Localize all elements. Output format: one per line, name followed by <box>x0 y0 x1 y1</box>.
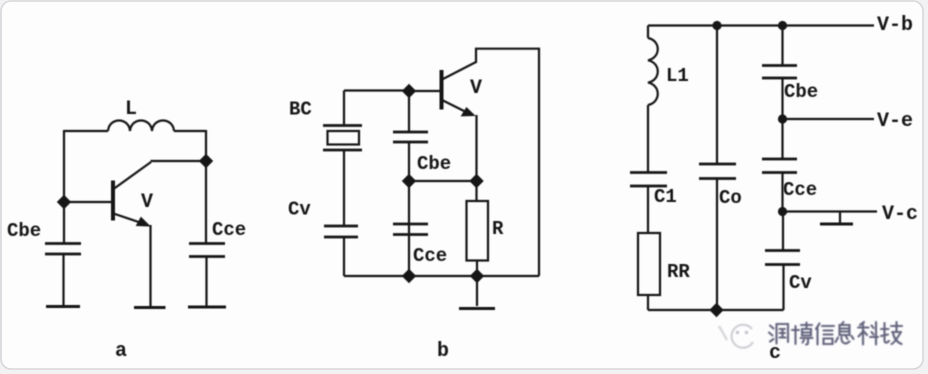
wire: left vertical lower (b) <box>343 237 345 276</box>
wire: middle vertical lower (c) <box>716 179 718 311</box>
wire: below R (b) <box>476 261 478 277</box>
wire: L1 to C1 (c) <box>647 105 649 173</box>
svg-text:BC: BC <box>289 99 312 121</box>
svg-text:V-b: V-b <box>877 14 913 37</box>
wire: Cbe to V-e node (c) <box>781 78 783 119</box>
watermark hanzi 博 <box>792 323 813 345</box>
capacitor Cce (b) <box>393 223 428 226</box>
capacitor Cv (c) <box>765 249 800 252</box>
wire: C1 to RR (c) <box>647 186 649 233</box>
svg-text:V: V <box>470 77 482 100</box>
wire: right vertical above Cbe (c) <box>781 26 783 66</box>
capacitor C1 <box>630 171 667 174</box>
wire: node to Cv (c) <box>782 212 784 251</box>
node: top diamond (b) <box>403 85 416 98</box>
svg-text:Cbe: Cbe <box>417 153 451 175</box>
wire: bottom horizontal (c) <box>648 309 784 311</box>
resistor RR <box>638 233 660 295</box>
capacitor Cbe (a) <box>45 242 81 245</box>
wire: left vertical (a) <box>63 130 65 243</box>
wire: node to Cce (c) <box>781 119 783 159</box>
wire: bottom horizontal (b) <box>344 275 539 277</box>
svg-text:c: c <box>769 342 781 365</box>
node: base node diamond (a) <box>58 196 71 209</box>
wire: base wire (a) <box>64 201 111 203</box>
ground (emitter a) <box>134 306 166 309</box>
svg-text:V: V <box>141 191 153 214</box>
node: top-right dot (c) <box>778 21 787 30</box>
wire: emitter vertical (a) <box>149 225 151 306</box>
svg-text:Cv: Cv <box>789 272 812 294</box>
wire: top right segment (a) <box>174 130 206 132</box>
svg-text:Cce: Cce <box>212 219 246 241</box>
wire: below Cbe (a) <box>62 254 64 305</box>
capacitor Cbe (b) <box>393 131 428 134</box>
resistor R (b) <box>467 201 489 261</box>
svg-text:V-e: V-e <box>877 110 913 133</box>
wire: base wire (b) <box>409 90 440 92</box>
node: V-e dot (c) <box>778 114 787 123</box>
svg-text:R: R <box>492 218 504 240</box>
wire: left vertical upper (b) <box>343 91 345 126</box>
svg-text:Cce: Cce <box>413 245 447 267</box>
crystal BC: top plate <box>323 124 362 127</box>
watermark hanzi 信 <box>816 324 834 345</box>
watermark hanzi 科 <box>858 322 878 345</box>
wire: left vertical middle (b) <box>343 150 345 226</box>
svg-text:Co: Co <box>719 187 742 209</box>
svg-text:C1: C1 <box>654 186 677 208</box>
wire: Cce to V-c node (c) <box>781 173 783 212</box>
wire: collector up + top wire + right vertical (b) <box>476 49 539 276</box>
watermark hanzi 息 <box>836 322 854 344</box>
wire: below Cce (a) <box>205 257 207 306</box>
svg-text:V-c: V-c <box>882 203 918 226</box>
capacitor Cbe (c) <box>762 64 797 67</box>
svg-text:Cce: Cce <box>783 179 817 201</box>
ground (Cbe a) <box>46 305 80 308</box>
wire: right vertical (a) <box>205 130 207 243</box>
wire: top left segment (a) <box>64 130 108 132</box>
node: bottom dot (c) <box>710 304 723 317</box>
ground (b) <box>476 276 478 306</box>
wire: middle branch lower (b) <box>408 181 410 276</box>
capacitor Cce (c) <box>762 158 797 161</box>
transistor V (a): base bar <box>111 181 115 221</box>
wire: below RR (c) <box>647 295 649 310</box>
crystal BC: body rectangle <box>328 131 360 145</box>
wire: Cv to bottom (c) <box>782 265 784 311</box>
wire: mid horizontal link (b) <box>409 180 477 182</box>
wire: top left horizontal (b) <box>344 89 409 91</box>
capacitor Co <box>699 163 736 166</box>
transistor V (a): collector stroke <box>114 162 152 189</box>
svg-text:b: b <box>437 340 449 363</box>
transistor V (a): emitter stroke with arrow <box>114 214 144 224</box>
crystal BC: bottom plate <box>323 149 362 152</box>
wire: above L1 (c) <box>647 26 649 39</box>
svg-text:L: L <box>125 98 137 121</box>
wire: emitter vertical (b) <box>475 115 477 201</box>
capacitor Cv (b) <box>324 225 358 228</box>
watermark logo circle <box>732 325 753 348</box>
wire: top horizontal (c) <box>648 24 874 26</box>
wire: middle branch upper (b) <box>408 91 410 132</box>
inductor L1 <box>648 38 658 105</box>
node: bottom-left diamond (b) <box>403 270 416 283</box>
transistor V (b): collector stroke <box>442 62 476 80</box>
wire: middle vertical upper (c) <box>716 26 718 165</box>
watermark hanzi 润 <box>769 324 788 344</box>
svg-text:a: a <box>115 340 127 363</box>
node: top-mid dot (c) <box>712 21 721 30</box>
ground (Cce a) <box>188 306 226 309</box>
wire: V-e lead (c) <box>783 118 875 120</box>
node: V-c dot (c) <box>778 207 787 216</box>
node: mid-left diamond (b) <box>403 175 416 188</box>
wire: middle branch to mid node (b) <box>408 142 410 181</box>
wire: collector horizontal (a) <box>151 160 207 162</box>
watermark hanzi 技 <box>881 322 902 344</box>
svg-text:L1: L1 <box>666 65 689 87</box>
svg-text:Cbe: Cbe <box>7 220 41 242</box>
node: collector node diamond (a) <box>200 155 213 168</box>
wire: V-c lead (c) <box>783 210 878 212</box>
transistor V (b): base bar <box>440 70 444 110</box>
inductor L <box>108 121 174 132</box>
svg-text:RR: RR <box>667 261 690 283</box>
node: mid-right diamond (b) <box>470 175 483 188</box>
transistor V (b): emitter stroke with arrow <box>442 100 468 113</box>
ground (on V-c lead) <box>839 212 841 223</box>
capacitor Cce (a) <box>189 242 225 245</box>
svg-text:Cbe: Cbe <box>784 81 818 103</box>
svg-text:Cv: Cv <box>288 199 311 221</box>
node: bottom-right diamond (b) <box>471 270 484 283</box>
watermark logo slash <box>719 326 727 340</box>
